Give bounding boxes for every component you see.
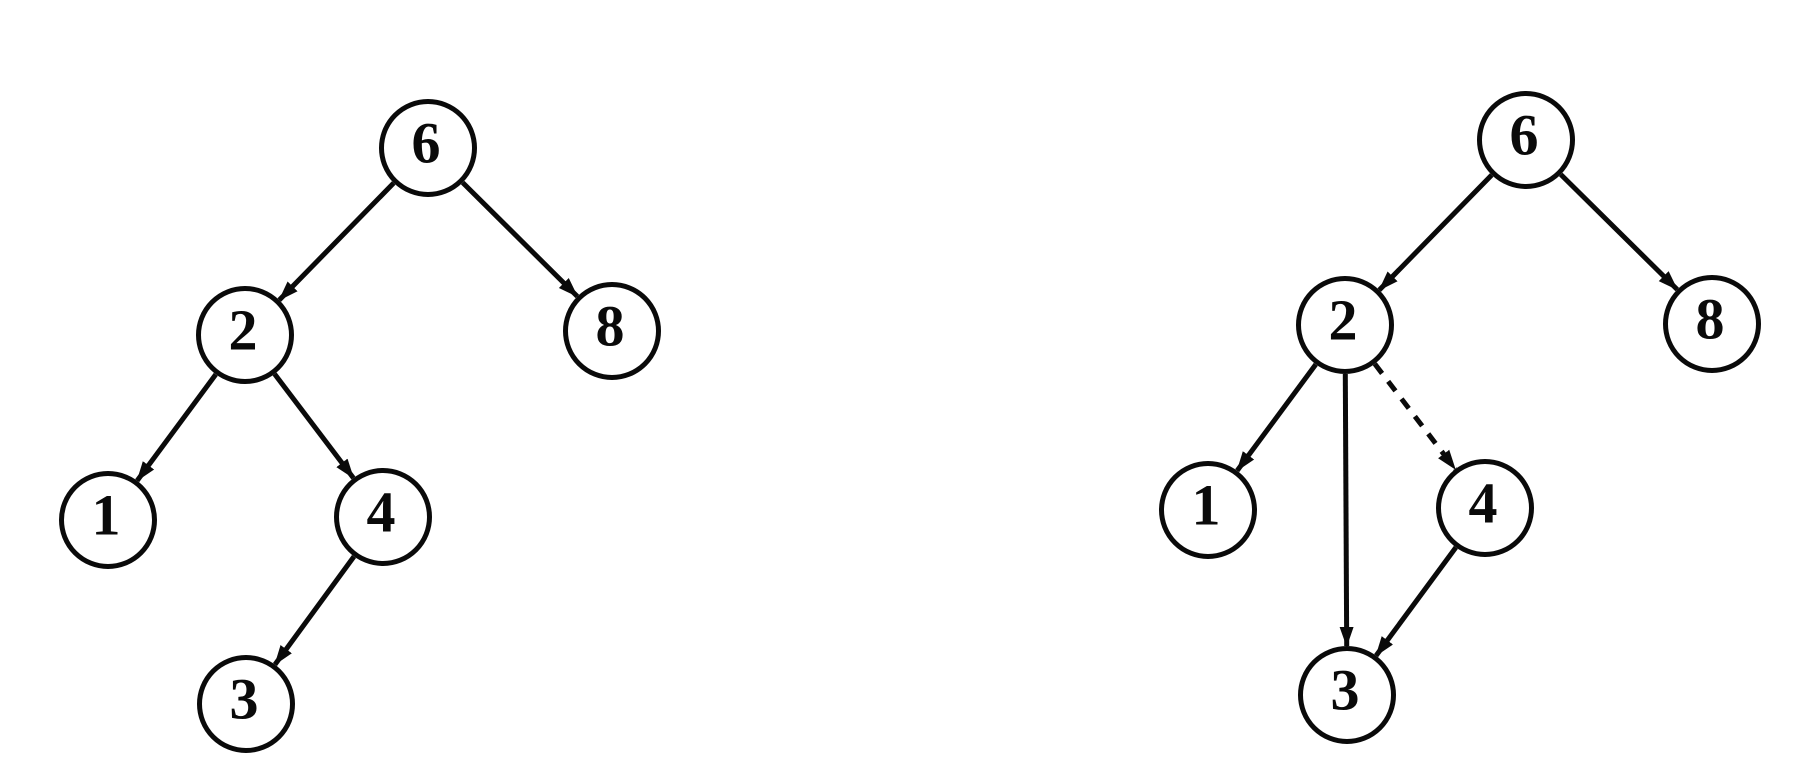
- node 3 (right tree): [1301, 649, 1394, 742]
- node 4 (left tree): [337, 471, 430, 564]
- svg-text:2: 2: [1329, 288, 1358, 353]
- wire edge 2->1 (left tree): [137, 374, 216, 480]
- svg-text:4: 4: [367, 480, 396, 545]
- node 6 (left tree): [382, 102, 475, 195]
- wire edge 6->2 (left tree): [279, 183, 393, 300]
- wire edge 2->1 (right tree): [1237, 364, 1316, 470]
- wire edge 4->3 (left tree): [275, 557, 354, 665]
- svg-text:1: 1: [1192, 473, 1221, 538]
- svg-text:6: 6: [412, 111, 441, 176]
- svg-text:8: 8: [596, 294, 625, 359]
- svg-text:4: 4: [1469, 471, 1498, 536]
- wire edge 2->3 (right tree): [1345, 374, 1346, 646]
- wire edge 6->8 (right tree): [1561, 175, 1677, 290]
- node 6 (right tree): [1480, 94, 1573, 187]
- node 3 (left tree): [200, 658, 293, 751]
- node 1 (left tree): [62, 474, 155, 567]
- svg-text:3: 3: [1331, 658, 1360, 723]
- node 1 (right tree): [1162, 464, 1255, 557]
- wire edge 6->2 (right tree): [1379, 175, 1491, 290]
- node 2 (right tree): [1299, 279, 1392, 372]
- node 8 (right tree): [1666, 278, 1759, 371]
- wire edge 2->4 (left tree): [275, 374, 354, 478]
- svg-text:8: 8: [1696, 287, 1725, 352]
- svg-text:2: 2: [229, 298, 258, 363]
- node 8 (left tree): [566, 285, 659, 378]
- wire edge 2->4 dashed (right tree): [1375, 364, 1455, 469]
- svg-text:3: 3: [230, 667, 259, 732]
- svg-text:6: 6: [1510, 103, 1539, 168]
- svg-text:1: 1: [92, 483, 121, 548]
- wire edge 6->8 (left tree): [463, 183, 578, 297]
- wire edge 4->3 (right tree): [1376, 547, 1456, 655]
- node 4 (right tree): [1439, 462, 1532, 555]
- node 2 (left tree): [199, 289, 292, 382]
